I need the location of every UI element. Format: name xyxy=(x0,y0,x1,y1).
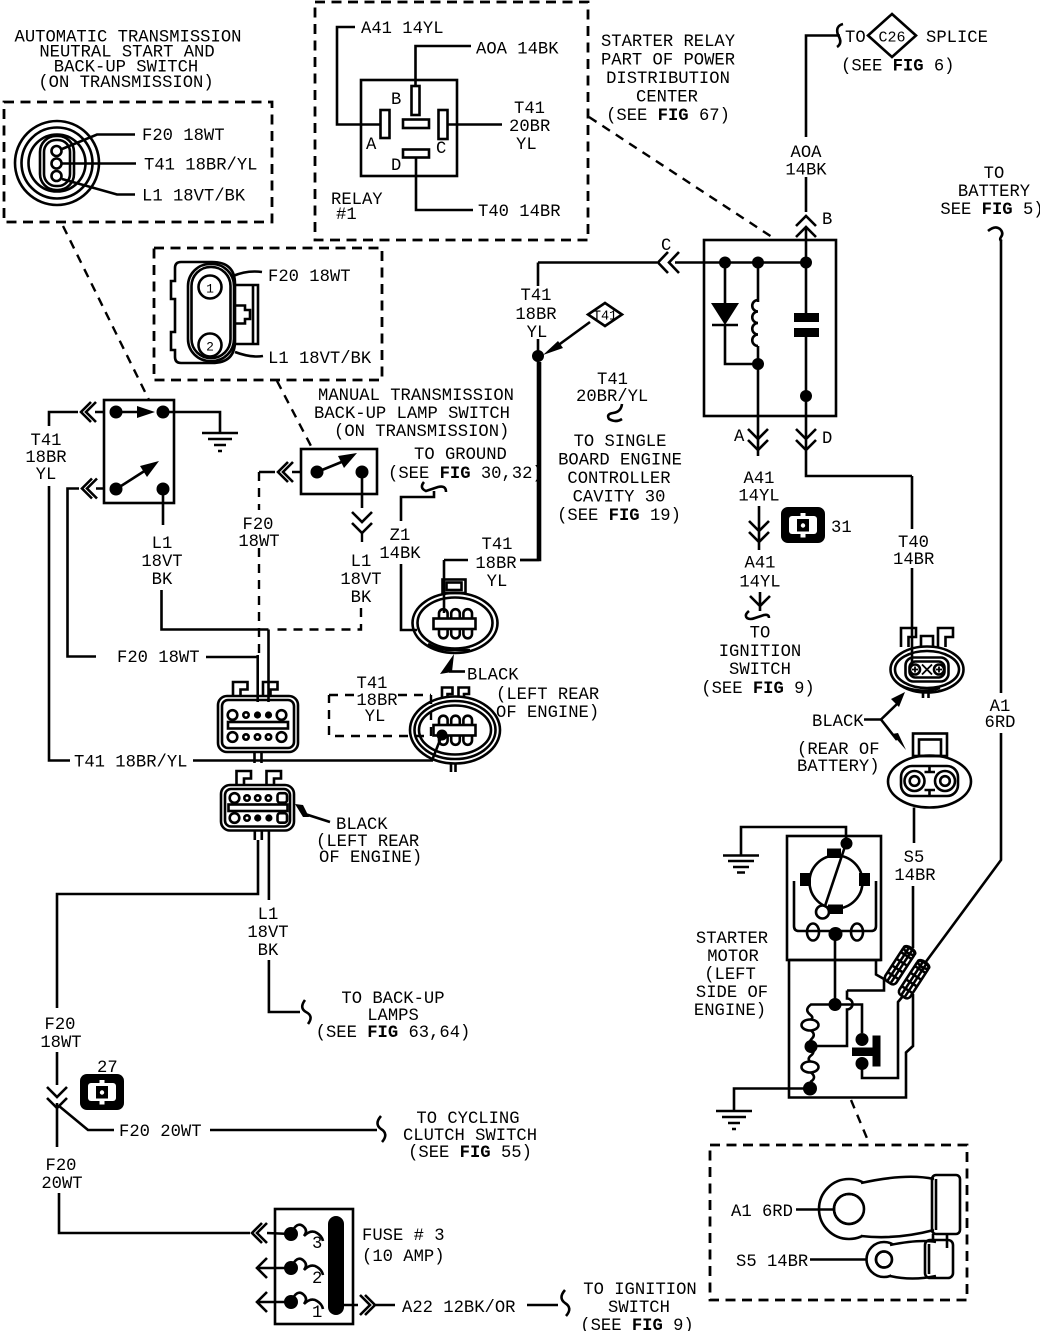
svg-text:T41: T41 xyxy=(514,100,545,119)
svg-text:F20: F20 xyxy=(46,1157,77,1176)
svg-text:18WT: 18WT xyxy=(40,1034,81,1053)
wire AOA to pin B xyxy=(416,46,472,87)
curly: to C26 splice xyxy=(837,24,843,47)
cable A1 crosshatched xyxy=(897,958,930,999)
wire C into relay xyxy=(538,261,806,264)
C1 pins bottom row xyxy=(228,732,287,742)
svg-text:AOA: AOA xyxy=(791,144,823,163)
dashed wire L1 down to junction xyxy=(274,608,361,630)
pin B xyxy=(412,86,420,115)
lower oval pin block xyxy=(434,716,476,745)
wire T41 into upper oval xyxy=(443,560,446,613)
svg-text:A22 12BK/OR: A22 12BK/OR xyxy=(402,1299,515,1318)
svg-text:(SEE FIG 67): (SEE FIG 67) xyxy=(606,107,730,126)
lower oval bottom stub xyxy=(451,764,456,773)
solenoid coil xyxy=(807,1005,835,1020)
manual switch arrow xyxy=(322,461,344,470)
svg-text:C: C xyxy=(436,140,446,159)
svg-text:18VT: 18VT xyxy=(247,924,288,943)
T41 diamond pointer xyxy=(588,303,622,326)
rotor diagonal xyxy=(825,844,846,907)
wire F20 left of manual switch xyxy=(259,471,301,474)
F20 splice chevrons xyxy=(47,1087,67,1108)
svg-text:B: B xyxy=(822,211,832,230)
dashed leader relay box to starter relay xyxy=(589,117,775,239)
wire L1 into connector xyxy=(267,630,270,703)
svg-text:S5: S5 xyxy=(904,849,925,868)
switch contact top-left xyxy=(110,406,123,419)
oval connector (Z1/T41, left rear of engine) upper xyxy=(413,593,498,653)
svg-text:C26: C26 xyxy=(878,30,905,47)
svg-text:YL: YL xyxy=(527,324,548,343)
S5 oval connector xyxy=(888,756,971,808)
svg-text:SWITCH: SWITCH xyxy=(729,661,791,680)
wire brush common down xyxy=(834,933,837,1004)
svg-text:L1 18VT/BK: L1 18VT/BK xyxy=(142,188,246,207)
svg-text:BLACK: BLACK xyxy=(812,713,864,732)
auto switch box xyxy=(104,400,174,503)
svg-text:18WT: 18WT xyxy=(238,533,279,552)
commutator node xyxy=(841,838,853,850)
svg-text:A: A xyxy=(734,428,745,447)
oval connector lower (T41, left rear of engine) xyxy=(410,697,500,764)
node: relay internal top-mid xyxy=(752,257,764,269)
fuse box xyxy=(275,1209,353,1324)
wire S5 lower xyxy=(912,886,915,948)
cable S5 crosshatched xyxy=(883,944,916,985)
svg-text:IGNITION: IGNITION xyxy=(719,643,802,662)
channel inner wall xyxy=(847,978,884,991)
svg-text:1: 1 xyxy=(206,282,214,297)
label STARTER MOTOR xyxy=(694,930,768,1021)
svg-text:D: D xyxy=(391,157,401,176)
svg-text:#1: #1 xyxy=(336,206,357,225)
ground wire upper (starter) xyxy=(741,827,846,855)
wire A1 lower segment xyxy=(925,733,1001,963)
T40 oval connector xyxy=(891,647,964,693)
svg-text:(ON TRANSMISSION): (ON TRANSMISSION) xyxy=(38,74,213,93)
svg-text:FUSE # 3: FUSE # 3 xyxy=(362,1227,445,1246)
svg-text:F20 18WT: F20 18WT xyxy=(142,127,225,146)
svg-text:BLACK: BLACK xyxy=(467,667,519,686)
wire Z1 xyxy=(401,491,434,521)
brush bottom xyxy=(828,905,843,915)
relay common pin (center) xyxy=(403,120,429,129)
lower oval tabs xyxy=(442,688,469,698)
arrow to upper oval xyxy=(440,654,454,674)
label TO BACK-UP LAMPS (SEE FIG 63,64) xyxy=(316,990,471,1043)
svg-text:14BR: 14BR xyxy=(893,551,934,570)
svg-text:PART OF POWER: PART OF POWER xyxy=(601,52,735,71)
contact T bar xyxy=(873,1036,881,1067)
leader T41 xyxy=(62,162,136,165)
relay coil xyxy=(757,263,760,303)
svg-text:SIDE OF: SIDE OF xyxy=(696,984,768,1003)
C2 pins top row xyxy=(230,793,287,803)
svg-text:14BK: 14BK xyxy=(785,162,827,181)
svg-text:BK: BK xyxy=(152,571,173,590)
svg-text:CAVITY 30: CAVITY 30 xyxy=(573,489,666,508)
pin 2 T41 xyxy=(52,159,62,169)
svg-text:L1: L1 xyxy=(152,535,173,554)
label TO IGNITION SWITCH (SEE FIG 9) xyxy=(701,625,814,700)
arrow diamond to junction xyxy=(553,322,590,349)
leader L1 xyxy=(235,352,263,357)
switch arrow top xyxy=(122,411,140,414)
svg-text:A41 14YL: A41 14YL xyxy=(361,20,444,39)
wire F20 from C2 down-left xyxy=(57,840,258,1008)
10-pin connector C2 tabs xyxy=(237,771,282,785)
svg-text:SWITCH: SWITCH xyxy=(608,1299,670,1318)
svg-text:YL: YL xyxy=(365,708,386,727)
fuse pin 1 xyxy=(284,1295,298,1309)
svg-text:SPLICE: SPLICE xyxy=(926,29,988,48)
label T41 18BR YL bracket xyxy=(444,362,540,560)
fuse bus bar xyxy=(328,1216,344,1315)
svg-text:YL: YL xyxy=(36,466,57,485)
wire junction down to oval connector xyxy=(520,356,538,560)
svg-text:T41: T41 xyxy=(521,287,552,306)
leader L1 xyxy=(62,179,135,195)
svg-text:(SEE FIG 30,32): (SEE FIG 30,32) xyxy=(388,465,543,484)
wire A22 out of fuse xyxy=(344,1295,395,1315)
C1 slot xyxy=(228,722,288,729)
svg-text:27: 27 xyxy=(97,1059,118,1078)
svg-text:S5 14BR: S5 14BR xyxy=(736,1253,808,1272)
diode xyxy=(724,263,727,304)
svg-text:STARTER RELAY: STARTER RELAY xyxy=(601,33,735,52)
svg-text:BATTERY: BATTERY xyxy=(958,183,1030,202)
switch contact bottom-right xyxy=(157,483,170,496)
wire junction to contact (with hop) xyxy=(835,1005,862,1034)
pin D xyxy=(403,150,429,158)
title: starter relay part of power distribution center xyxy=(601,33,735,126)
svg-text:F20 18WT: F20 18WT xyxy=(117,649,200,668)
dashed wire F20 down xyxy=(258,472,260,655)
svg-text:MANUAL TRANSMISSION: MANUAL TRANSMISSION xyxy=(318,387,514,406)
svg-text:CENTER: CENTER xyxy=(636,89,698,108)
svg-text:14BR: 14BR xyxy=(894,867,935,886)
svg-text:14BK: 14BK xyxy=(379,545,421,564)
svg-text:TO: TO xyxy=(984,165,1005,184)
svg-text:ENGINE): ENGINE) xyxy=(694,1002,766,1021)
svg-text:(SEE FIG 55): (SEE FIG 55) xyxy=(408,1144,532,1163)
svg-text:BK: BK xyxy=(351,589,372,608)
brush holder bracket xyxy=(794,881,876,931)
manual switch contact right xyxy=(356,466,369,479)
connector A chevrons xyxy=(757,416,760,456)
svg-text:TO SINGLE: TO SINGLE xyxy=(574,433,667,452)
arrow down to S5 connector xyxy=(881,720,897,741)
svg-text:T41 18BR/YL: T41 18BR/YL xyxy=(144,157,257,176)
pin C xyxy=(439,110,448,139)
svg-text:BATTERY): BATTERY) xyxy=(797,758,880,777)
svg-text:(ON TRANSMISSION): (ON TRANSMISSION) xyxy=(334,423,509,442)
dashed box: relay #1 xyxy=(315,2,588,240)
chevrons at fuse pin 3 xyxy=(252,1223,291,1243)
pin 1 F20 xyxy=(52,146,62,156)
wire T40 into connector xyxy=(911,628,914,666)
brush left xyxy=(800,873,811,886)
svg-text:B: B xyxy=(391,91,401,110)
svg-text:DISTRIBUTION: DISTRIBUTION xyxy=(606,70,730,89)
wire ground from top-right contact xyxy=(163,412,220,433)
wire T41 bottom label xyxy=(49,755,70,761)
upper oval lock tab xyxy=(443,580,466,594)
dashed box: manual trans connector xyxy=(154,248,382,380)
node: junction T41 xyxy=(537,263,540,357)
curly to ignition switch xyxy=(562,1290,570,1316)
svg-text:TO GROUND: TO GROUND xyxy=(414,446,507,465)
svg-text:BK: BK xyxy=(258,942,279,961)
svg-text:20BR/YL: 20BR/YL xyxy=(576,388,648,407)
fuse pin 2 xyxy=(284,1261,298,1275)
curly ground wire xyxy=(422,482,446,492)
svg-text:BACK-UP LAMP SWITCH: BACK-UP LAMP SWITCH xyxy=(314,405,510,424)
leader F20 xyxy=(62,135,135,150)
title: automatic transmission neutral start and back-up switch xyxy=(15,29,242,94)
upper oval pin block xyxy=(434,609,476,638)
wire branch F20 20WT xyxy=(57,1103,114,1147)
pin 3 L1 xyxy=(52,171,62,181)
wire pin C to T41 20BR xyxy=(448,123,503,126)
wire S5 from connector down xyxy=(913,808,916,844)
label to single board engine controller xyxy=(557,433,682,526)
starter motor upper housing xyxy=(787,836,881,960)
svg-text:YL: YL xyxy=(516,136,537,155)
C1 bottom stub xyxy=(255,752,262,763)
svg-text:T40 14BR: T40 14BR xyxy=(478,203,561,222)
svg-text:BOARD ENGINE: BOARD ENGINE xyxy=(558,452,682,471)
manual switch contact left xyxy=(311,466,324,479)
svg-text:14YL: 14YL xyxy=(738,488,779,507)
wire L1 from C2 down xyxy=(268,830,271,900)
svg-text:18BR: 18BR xyxy=(515,306,556,325)
wire contact to case xyxy=(862,996,903,1078)
wire A1 to battery xyxy=(1000,240,1003,693)
svg-text:18VT: 18VT xyxy=(340,571,381,590)
node on lower oval pin xyxy=(437,730,448,741)
C2 slot xyxy=(229,805,288,812)
ground wire lower xyxy=(734,1089,810,1112)
curly to cycling clutch xyxy=(378,1116,386,1142)
switch arrow diagonal xyxy=(121,470,146,486)
T40 oval bottom stub xyxy=(923,693,929,699)
connector small block between terminals xyxy=(933,1234,947,1248)
svg-text:T41: T41 xyxy=(593,310,617,325)
starter relay box xyxy=(704,240,836,416)
relay #1 outline xyxy=(361,80,457,176)
svg-text:TO: TO xyxy=(845,29,866,48)
svg-text:(LEFT REAR: (LEFT REAR xyxy=(496,686,599,705)
svg-text:A41: A41 xyxy=(745,555,776,574)
svg-text:2: 2 xyxy=(206,340,214,355)
svg-text:OF ENGINE): OF ENGINE) xyxy=(496,704,599,723)
svg-text:20BR: 20BR xyxy=(509,118,550,137)
T40 pins xyxy=(910,665,944,675)
10-pin connector C2 body xyxy=(221,785,294,831)
ground symbol xyxy=(202,433,238,451)
svg-text:(10 AMP): (10 AMP) xyxy=(362,1248,445,1267)
svg-text:D: D xyxy=(822,430,832,449)
wire A41 to pin A xyxy=(337,27,381,125)
svg-text:(SEE FIG 9): (SEE FIG 9) xyxy=(701,680,814,699)
svg-text:CONTROLLER: CONTROLLER xyxy=(567,470,670,489)
manual switch box xyxy=(301,449,377,494)
wire T40 down right side xyxy=(911,476,914,529)
C2 pins bottom row xyxy=(230,813,287,823)
node: relay internal top-right xyxy=(800,257,812,269)
ring terminal A1 xyxy=(819,1175,960,1239)
wire cable to solenoid with hop over xyxy=(817,991,853,1047)
ground symbol lower xyxy=(716,1111,752,1129)
svg-text:(SEE FIG 63,64): (SEE FIG 63,64) xyxy=(316,1024,471,1043)
A41 double chevron xyxy=(749,506,769,550)
wire T41 top-left with chevrons xyxy=(49,412,104,755)
pin 1 circle xyxy=(199,276,222,299)
svg-text:(LEFT: (LEFT xyxy=(704,966,756,985)
svg-text:(SEE FIG 6): (SEE FIG 6) xyxy=(841,58,954,77)
2-pin connector body xyxy=(171,262,235,363)
curly to back-up lamps xyxy=(302,1000,310,1024)
svg-text:C: C xyxy=(661,237,671,256)
10-pin connector C1 tabs xyxy=(233,682,278,696)
wire L1 from bottom-right contact xyxy=(162,489,165,525)
svg-text:F20 18WT: F20 18WT xyxy=(268,268,351,287)
svg-text:T41 18BR/YL: T41 18BR/YL xyxy=(74,754,187,773)
ground symbol upper xyxy=(723,856,759,873)
wire L1 below manual switch xyxy=(361,472,364,508)
svg-text:TO: TO xyxy=(750,625,771,644)
S5 connector top tab xyxy=(913,734,947,757)
S5 pins xyxy=(905,766,956,796)
connector terminals right xyxy=(235,285,258,344)
svg-text:AOA 14BK: AOA 14BK xyxy=(476,41,559,60)
svg-text:TO IGNITION: TO IGNITION xyxy=(583,1281,696,1300)
C26 diamond xyxy=(868,14,916,57)
label TO IGNITION SWITCH (SEE FIG 9) xyxy=(580,1281,696,1331)
brush top xyxy=(827,849,841,859)
C1 pins top row xyxy=(228,710,287,720)
dashed box: neutral start switch xyxy=(4,102,272,222)
splice 31 symbol xyxy=(781,507,825,543)
node: relay internal top-left xyxy=(719,257,731,269)
10-pin connector C1 body xyxy=(218,696,298,752)
node: contact bottom xyxy=(800,390,812,402)
connector C chevrons xyxy=(658,252,679,273)
dashed leader starter to terminals xyxy=(851,1100,869,1143)
curly battery wire end xyxy=(988,227,1002,241)
svg-text:3: 3 xyxy=(312,1235,322,1254)
pin 2 circle xyxy=(199,334,222,357)
wire F20 bottom-left with chevrons xyxy=(68,489,105,657)
relay contact plates xyxy=(805,263,808,314)
dashed leader to auto switch xyxy=(63,226,149,400)
svg-text:6RD: 6RD xyxy=(985,714,1016,733)
connector B chevrons xyxy=(796,216,816,237)
leader F20 xyxy=(233,272,262,277)
curly to SBEC xyxy=(608,404,622,421)
T40 oval connector tabs xyxy=(901,628,953,647)
svg-text:18BR: 18BR xyxy=(475,555,516,574)
dashed box: terminals xyxy=(710,1145,967,1300)
svg-text:Z1: Z1 xyxy=(390,527,411,546)
wire F20 to fuse xyxy=(59,1193,250,1233)
motor circle xyxy=(810,856,863,909)
starter lower body outline xyxy=(789,960,913,1098)
label TO CYCLING CLUTCH SWITCH (SEE FIG 55) xyxy=(403,1110,537,1163)
svg-text:L1: L1 xyxy=(351,553,372,572)
fuse pin 3 xyxy=(284,1227,298,1241)
dashed leader to manual switch xyxy=(277,381,311,446)
contact lower node xyxy=(856,1057,869,1070)
svg-text:31: 31 xyxy=(831,519,852,538)
ring terminal S5 xyxy=(867,1240,954,1279)
node solenoid mid xyxy=(805,1040,818,1053)
brush right xyxy=(859,873,870,886)
arrow to C2 xyxy=(295,804,309,817)
curly to ignition switch xyxy=(746,611,769,619)
title: manual transmission back-up lamp switch xyxy=(314,387,514,442)
switch contact top-right xyxy=(157,406,170,419)
svg-text:20WT: 20WT xyxy=(41,1175,82,1194)
C2 bottom stub xyxy=(255,830,262,840)
wire pin D to T40 xyxy=(416,158,473,210)
dashed label box T41 18BR YL xyxy=(329,695,431,736)
svg-text:OF ENGINE): OF ENGINE) xyxy=(319,849,422,868)
svg-text:L1 18VT/BK: L1 18VT/BK xyxy=(268,350,372,369)
svg-text:STARTER: STARTER xyxy=(696,930,768,949)
connector D chevrons xyxy=(796,416,912,476)
connector J1 concentric circles xyxy=(15,121,99,205)
splice 27 symbol xyxy=(80,1074,124,1110)
svg-text:SEE FIG 5): SEE FIG 5) xyxy=(940,201,1040,220)
node: coil bottom junction xyxy=(752,358,764,370)
svg-text:A1 6RD: A1 6RD xyxy=(731,1203,793,1222)
svg-text:A41: A41 xyxy=(744,470,775,489)
pin A xyxy=(381,110,390,138)
node brush common xyxy=(829,927,843,941)
svg-text:A: A xyxy=(366,136,377,155)
wire AOA 14BK from splice to starter relay xyxy=(806,36,840,138)
svg-text:L1: L1 xyxy=(258,906,279,925)
svg-text:T41: T41 xyxy=(482,536,513,555)
svg-text:MOTOR: MOTOR xyxy=(707,948,759,967)
contact upper node xyxy=(856,1033,869,1046)
switch contact bottom-left xyxy=(110,483,123,496)
svg-text:(SEE FIG 19): (SEE FIG 19) xyxy=(557,507,681,526)
svg-text:(SEE FIG 9): (SEE FIG 9) xyxy=(580,1317,693,1331)
svg-text:14YL: 14YL xyxy=(739,574,780,593)
node solenoid bottom xyxy=(803,1082,817,1096)
svg-text:18VT: 18VT xyxy=(141,553,182,572)
L1 double chevron down xyxy=(352,512,372,533)
arrow up to T40 connector xyxy=(881,704,897,720)
svg-text:F20: F20 xyxy=(45,1016,76,1035)
node main junction xyxy=(829,998,842,1011)
svg-text:F20 20WT: F20 20WT xyxy=(119,1123,202,1142)
svg-text:YL: YL xyxy=(487,573,508,592)
svg-text:2: 2 xyxy=(312,1270,322,1289)
svg-text:1: 1 xyxy=(312,1304,322,1323)
